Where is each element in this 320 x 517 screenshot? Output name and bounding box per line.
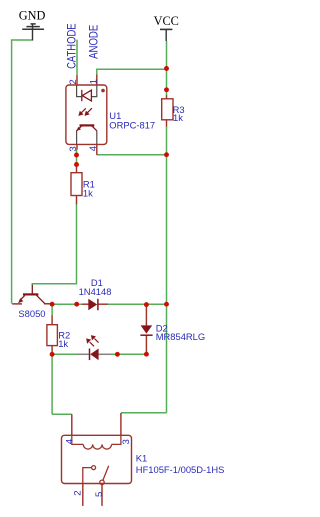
svg-text:2: 2	[68, 79, 79, 84]
svg-text:MR854RLG: MR854RLG	[156, 331, 206, 342]
svg-text:2: 2	[73, 490, 84, 495]
svg-text:ANODE: ANODE	[86, 25, 100, 59]
svg-text:5: 5	[94, 492, 105, 497]
svg-text:ORPC-817: ORPC-817	[109, 120, 155, 131]
svg-text:S8050: S8050	[18, 308, 45, 319]
svg-text:4: 4	[65, 438, 76, 444]
svg-text:1k: 1k	[58, 338, 68, 349]
svg-text:CATHODE: CATHODE	[65, 23, 79, 69]
svg-text:GND: GND	[19, 9, 46, 23]
svg-text:K1: K1	[136, 453, 147, 464]
svg-text:1k: 1k	[173, 112, 183, 123]
svg-text:3: 3	[68, 146, 79, 151]
svg-text:1k: 1k	[83, 188, 93, 199]
svg-text:1: 1	[89, 79, 100, 84]
svg-text:3: 3	[121, 439, 132, 444]
svg-text:4: 4	[88, 145, 99, 151]
svg-text:VCC: VCC	[154, 14, 179, 28]
svg-text:HF105F-1/005D-1HS: HF105F-1/005D-1HS	[136, 464, 225, 475]
svg-text:1N4148: 1N4148	[79, 286, 112, 297]
